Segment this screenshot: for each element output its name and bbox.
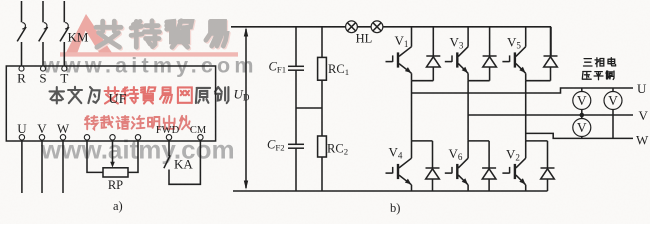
diode D5 xyxy=(544,56,558,67)
terminal bottom terminal CM xyxy=(198,135,203,140)
wire join to diode of V4 xyxy=(432,141,434,168)
wire voltmeter stub 2 xyxy=(612,88,614,92)
wire R to box xyxy=(21,42,23,66)
wire top rail to diode V3 xyxy=(489,27,491,56)
wire diode V6 to bottom rail xyxy=(488,179,490,191)
wire V1 emitter down xyxy=(411,73,413,80)
wire diode V1 to join xyxy=(432,67,434,81)
contactor KM contact S xyxy=(44,23,47,29)
terminal T terminal xyxy=(62,66,67,71)
terminal bottom terminal U xyxy=(19,135,24,140)
wire diode V5 to join xyxy=(550,67,552,81)
leg middle wire V3-V6 xyxy=(467,81,469,141)
transistor V4 xyxy=(386,158,412,185)
wire top rail to V5 collector xyxy=(525,27,527,47)
wire RC1-RC2 xyxy=(321,80,323,136)
input wire phase R xyxy=(21,1,23,22)
transistor V6 xyxy=(445,158,468,185)
top DC rail xyxy=(231,26,551,28)
wire V4 collector xyxy=(411,141,413,158)
voltmeter PV1 xyxy=(573,92,591,110)
terminal bottom terminal aux xyxy=(135,135,140,140)
leg middle wire V5-V2 xyxy=(525,81,527,141)
join wire leg V6 xyxy=(468,140,489,142)
lamp HL2 xyxy=(371,21,383,33)
terminal bottom terminal FWD xyxy=(166,135,171,140)
relay contact KA xyxy=(164,140,201,184)
diode D3 xyxy=(483,56,497,67)
diode D2 xyxy=(541,168,555,179)
watermark logo A xyxy=(60,14,238,57)
terminal bottom terminal aux xyxy=(84,135,89,140)
resistor RC2 xyxy=(318,136,327,157)
motor wire U xyxy=(21,140,23,193)
diode D4 xyxy=(426,168,440,179)
join wire leg V2 xyxy=(526,140,548,142)
potentiometer RP xyxy=(87,140,138,177)
wire diode V2 to bottom rail xyxy=(547,179,549,191)
terminal R terminal xyxy=(19,66,24,71)
wire voltmeter stub 1 xyxy=(581,88,583,92)
transistor V2 xyxy=(502,158,525,185)
junction dot V line xyxy=(580,113,585,118)
transistor V5 xyxy=(502,47,525,74)
input wire phase T xyxy=(63,1,65,22)
Ud measurement arrow xyxy=(244,27,248,190)
wire RC2 to bottom rail xyxy=(321,157,323,191)
wire join to diode of V6 xyxy=(488,141,490,168)
leg middle wire V1-V4 xyxy=(411,81,413,141)
wire top rail to V1 collector xyxy=(411,27,413,47)
diode D1 xyxy=(426,56,440,67)
node U phase line xyxy=(412,88,634,93)
inverter box UF xyxy=(6,66,215,141)
bottom DC rail xyxy=(233,190,548,192)
wire T to box xyxy=(63,42,65,66)
wire V3 emitter down xyxy=(467,73,469,80)
wire S to box xyxy=(42,42,44,66)
wire voltmeter1 to V line xyxy=(581,109,583,115)
motor wire V xyxy=(41,140,43,193)
join wire leg V1 xyxy=(412,80,434,82)
terminal bottom terminal W xyxy=(60,135,65,140)
node W phase line xyxy=(526,133,633,138)
watermark title 艾特贸易 xyxy=(96,21,228,49)
diode D6 xyxy=(482,168,496,179)
wire V2 emitter to bottom rail xyxy=(525,185,527,191)
watermark 转载请注明出处 xyxy=(85,116,191,129)
wire diode V4 to bottom rail xyxy=(432,179,434,191)
contactor KM contact T xyxy=(65,23,68,29)
wire CF2 to bottom rail xyxy=(295,148,297,191)
wire top rail to V3 collector xyxy=(467,27,469,47)
transistor V3 xyxy=(445,47,468,74)
contactor KM contact R xyxy=(22,23,25,29)
input wire phase S xyxy=(42,1,44,22)
capacitor CF1 xyxy=(288,66,304,70)
wire top rail right end down to D5 xyxy=(550,27,552,56)
wire diode V3 to join xyxy=(489,67,491,81)
wire voltmeter2 down to W line xyxy=(612,109,614,138)
join wire leg V4 xyxy=(412,140,433,142)
wire V4 emitter to bottom rail xyxy=(411,185,413,191)
wire voltmeter3 top xyxy=(581,115,583,119)
capacitor branch wire top xyxy=(295,27,297,67)
node V phase line xyxy=(468,114,633,116)
wire top rail to diode V1 xyxy=(432,27,434,56)
terminal S terminal xyxy=(41,66,46,71)
label 三相电压平衡 xyxy=(582,58,615,80)
capacitor CF2 xyxy=(288,144,304,148)
motor wire W xyxy=(62,140,64,193)
voltmeter PV2 xyxy=(604,92,622,110)
wire V6 emitter to bottom rail xyxy=(467,185,469,191)
wire capacitor midpoint link xyxy=(296,107,322,109)
wire top rail to diode V5 xyxy=(550,27,552,56)
terminal bottom terminal V xyxy=(39,135,44,140)
resistor branch wire xyxy=(321,27,323,58)
transistor V1 xyxy=(386,47,412,74)
join wire leg V5 xyxy=(526,80,551,82)
wire voltmeter3 to W line xyxy=(581,136,583,138)
wire CF1-CF2 xyxy=(295,70,297,144)
lamp HL1 xyxy=(346,21,358,33)
join wire leg V3 xyxy=(468,80,490,82)
wire V5 emitter down xyxy=(525,73,527,80)
wire V2 collector xyxy=(525,141,527,158)
voltmeter PV3 xyxy=(573,119,591,137)
wire join to diode of V2 xyxy=(547,141,549,168)
terminal bottom terminal aux xyxy=(110,135,115,140)
resistor RC1 xyxy=(318,57,327,80)
wire V6 collector xyxy=(467,141,469,158)
watermark 本文为艾特贸易网原创 xyxy=(50,87,229,104)
